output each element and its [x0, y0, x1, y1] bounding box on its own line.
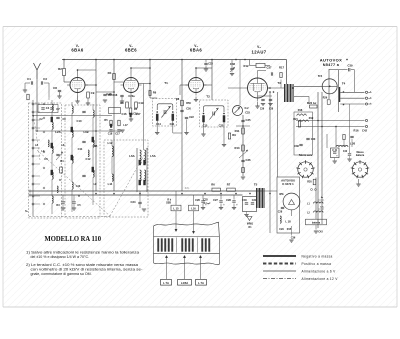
svg-text:6BA6: 6BA6 [71, 48, 84, 53]
svg-text:R11: R11 [235, 129, 240, 133]
svg-text:R50: R50 [186, 102, 191, 105]
svg-text:T1: T1 [164, 81, 168, 85]
svg-text:a.m.: a.m. [185, 187, 190, 189]
svg-text:1) Salvo altre indicazioni: 1) Salvo altre indicazioni le resistenze… [26, 250, 139, 254]
svg-text:C35: C35 [246, 118, 251, 122]
svg-text:R6: R6 [211, 183, 215, 187]
svg-text:C25: C25 [203, 199, 208, 202]
svg-text:C11: C11 [78, 147, 83, 151]
svg-text:MR91: MR91 [247, 224, 254, 226]
svg-text:T2: T2 [206, 95, 210, 99]
svg-text:R6: R6 [153, 91, 157, 95]
svg-text:C13: C13 [76, 185, 81, 188]
svg-text:L 7A: L 7A [163, 281, 169, 285]
svg-text:C10: C10 [77, 119, 82, 123]
svg-text:C33: C33 [245, 112, 250, 115]
svg-text:C23: C23 [208, 63, 213, 66]
svg-text:C26: C26 [186, 108, 191, 111]
svg-text:C43: C43 [318, 231, 323, 234]
svg-text:C16: C16 [122, 112, 127, 116]
svg-text:C22: C22 [189, 116, 194, 119]
svg-text:R21: R21 [293, 118, 298, 121]
svg-text:R16: R16 [354, 129, 359, 133]
svg-text:C1: C1 [27, 77, 31, 81]
svg-text:R1: R1 [60, 159, 64, 163]
svg-text:C21: C21 [170, 122, 175, 126]
svg-text:C8: C8 [53, 86, 57, 90]
svg-text:C25: C25 [219, 123, 224, 127]
svg-text:Tubi in serie: Tubi in serie [299, 155, 313, 157]
svg-text:C17: C17 [136, 112, 141, 116]
svg-text:C17: C17 [115, 133, 120, 136]
svg-text:C4: C4 [46, 106, 50, 110]
svg-text:Negativo a massa: Negativo a massa [302, 255, 333, 259]
svg-text:C29: C29 [279, 228, 284, 231]
svg-text:N5477 a: N5477 a [323, 63, 340, 67]
svg-text:Massa: Massa [356, 152, 364, 154]
svg-text:AUTOVOX: AUTOVOX [320, 58, 343, 63]
svg-text:L1B: L1B [83, 130, 88, 134]
svg-text:del ±10 % e dissipano 1/4: del ±10 % e dissipano 1/4 W a 70°C. [31, 255, 90, 259]
svg-text:C30: C30 [242, 199, 247, 202]
svg-text:R4: R4 [108, 71, 112, 75]
svg-text:batteria: batteria [356, 154, 365, 157]
svg-text:12AU7: 12AU7 [251, 49, 266, 54]
svg-text:S₁: S₁ [25, 209, 28, 213]
svg-text:T4: T4 [342, 82, 346, 86]
svg-text:Tr2: Tr2 [318, 74, 323, 78]
svg-text:C19: C19 [139, 101, 144, 105]
svg-text:C18: C18 [108, 133, 113, 136]
svg-text:C37: C37 [267, 66, 272, 70]
svg-text:R5: R5 [120, 101, 124, 105]
svg-text:C39: C39 [348, 64, 353, 68]
svg-text:C26: C26 [195, 198, 200, 202]
svg-text:C27: C27 [213, 198, 218, 202]
svg-text:C38: C38 [294, 145, 299, 148]
svg-text:C40: C40 [311, 138, 316, 141]
svg-text:R18: R18 [298, 109, 303, 112]
svg-text:R26: R26 [323, 97, 328, 100]
svg-text:R12: R12 [244, 64, 249, 68]
svg-text:S3B: S3B [166, 202, 171, 205]
svg-text:C28: C28 [226, 198, 231, 202]
svg-text:L2A: L2A [55, 130, 61, 134]
svg-text:R13: R13 [235, 146, 240, 150]
svg-text:C7: C7 [56, 107, 60, 111]
svg-text:PHC018: PHC018 [108, 94, 118, 97]
svg-text:R20: R20 [307, 181, 312, 184]
svg-text:C28: C28 [278, 211, 283, 214]
svg-text:C38: C38 [269, 109, 274, 111]
svg-text:O.2: O.2 [244, 107, 249, 110]
svg-text:R 22 1w: R 22 1w [307, 102, 316, 105]
svg-text:2) Le tensioni C.C. ±10 %: 2) Le tensioni C.C. ±10 % sono state mis… [26, 263, 138, 267]
svg-text:L 7A: L 7A [198, 281, 204, 285]
svg-text:Alimentazione a 6 V: Alimentazione a 6 V [302, 270, 337, 274]
svg-text:C3: C3 [43, 77, 47, 81]
svg-text:C42: C42 [343, 150, 348, 153]
svg-text:C9: C9 [91, 91, 95, 95]
svg-text:L14: L14 [108, 182, 113, 186]
svg-text:L6A: L6A [129, 154, 135, 158]
svg-text:R9: R9 [232, 133, 236, 137]
svg-text:C36: C36 [291, 237, 296, 240]
svg-text:L5A: L5A [150, 154, 156, 158]
svg-text:C36: C36 [246, 158, 251, 162]
svg-text:6BE6: 6BE6 [125, 48, 137, 53]
svg-text:6BA6: 6BA6 [190, 48, 203, 53]
svg-text:L16: L16 [191, 207, 196, 211]
svg-text:gnale, commutatore di gamma: gnale, commutatore di gamma su OM. [31, 272, 92, 276]
svg-text:R7: R7 [227, 183, 231, 187]
svg-text:C32: C32 [230, 62, 236, 66]
svg-text:con voltmetro di 20 kΩ/V d: con voltmetro di 20 kΩ/V di resistenza i… [31, 268, 144, 272]
svg-text:C42: C42 [362, 129, 367, 133]
svg-text:C20a: C20a [128, 94, 135, 98]
svg-text:batteria: batteria [312, 222, 321, 225]
svg-text:T3: T3 [277, 81, 281, 85]
svg-text:C24: C24 [131, 200, 136, 204]
svg-text:R8: R8 [176, 97, 180, 101]
svg-text:C12: C12 [86, 157, 91, 161]
svg-text:R17: R17 [279, 66, 284, 70]
svg-text:L4/5A: L4/5A [181, 281, 188, 285]
svg-text:L4B: L4B [93, 145, 98, 148]
svg-text:K 0472 1: K 0472 1 [282, 182, 294, 186]
svg-text:C36: C36 [260, 109, 265, 111]
svg-text:C6: C6 [44, 157, 48, 161]
svg-text:L17: L17 [123, 124, 128, 127]
svg-text:R19: R19 [309, 117, 314, 120]
svg-text:4,7kpF: 4,7kpF [204, 202, 212, 205]
svg-text:R15: R15 [287, 228, 292, 231]
svg-text:MODELLO RA 110: MODELLO RA 110 [45, 234, 102, 243]
svg-text:L 20: L 20 [350, 142, 356, 146]
svg-text:Positivo a massa: Positivo a massa [302, 262, 332, 266]
svg-text:T5: T5 [254, 183, 258, 187]
svg-text:L 15: L 15 [173, 207, 179, 211]
svg-text:R2: R2 [58, 67, 62, 71]
svg-text:Alimentazione a 12 V: Alimentazione a 12 V [302, 277, 339, 281]
svg-text:C 41: C 41 [332, 149, 338, 152]
svg-text:L 18: L 18 [285, 220, 291, 224]
svg-text:C14: C14 [156, 122, 161, 126]
